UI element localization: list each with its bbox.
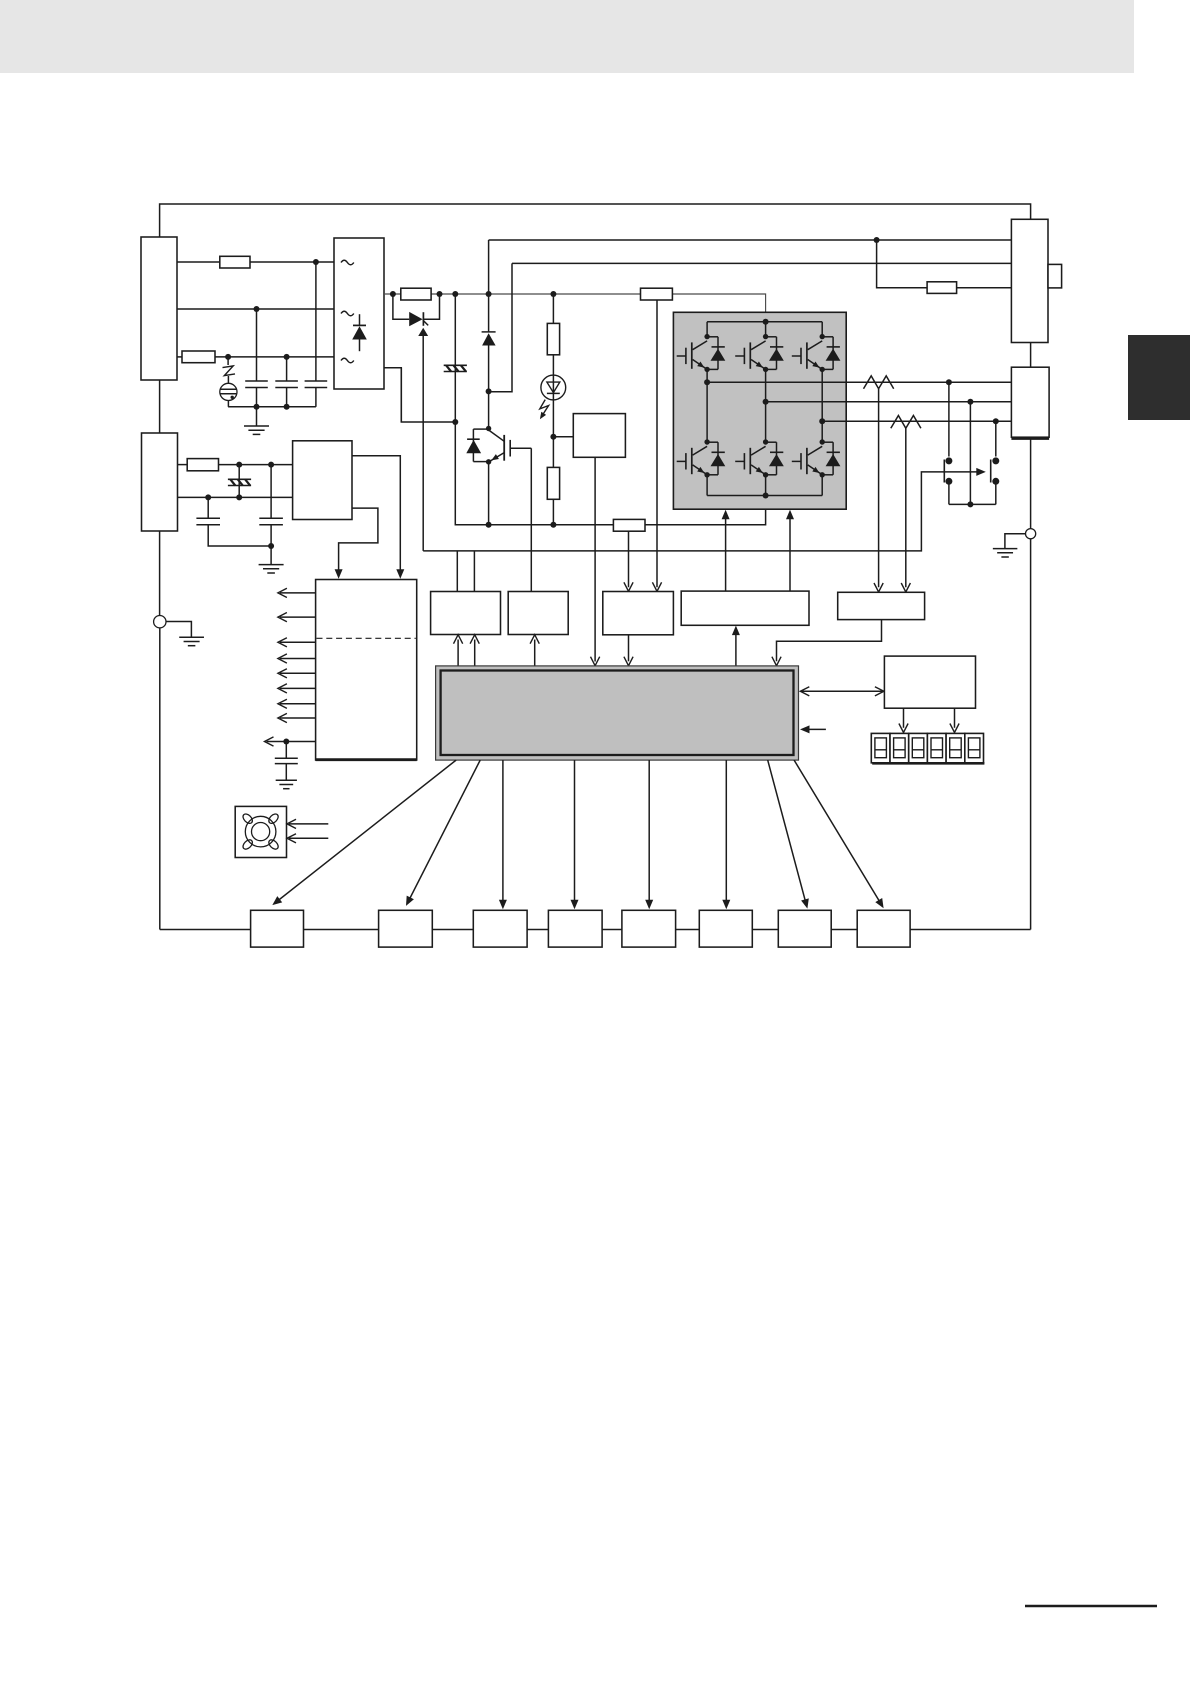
LED opto PC1 <box>552 355 554 468</box>
node U-K1 <box>946 379 952 385</box>
terminal block TB1 (R S T) <box>141 237 177 380</box>
ground G1 <box>256 407 258 426</box>
wire P1 top <box>489 239 1012 241</box>
fuse FU1 on DC link <box>454 294 456 422</box>
operator output arrow 3 <box>280 641 316 643</box>
PS1 tap wire <box>339 508 378 572</box>
7-segment display <box>871 733 984 763</box>
option box 8 <box>857 910 910 947</box>
module N rail <box>706 474 708 496</box>
contactor drive drop 1 <box>456 551 458 592</box>
cpu-to-box3 arrow <box>502 760 504 904</box>
current detect out wire <box>777 620 882 662</box>
cpu-to-box8 arrow <box>794 760 881 904</box>
detector output wire <box>594 457 596 661</box>
phase U riser <box>706 369 708 442</box>
wire P2 drop <box>489 263 512 391</box>
operator output arrow 2 <box>280 616 316 618</box>
IGBT Q8 lower W <box>792 439 841 477</box>
operator output arrow 5 <box>280 672 316 674</box>
node R <box>313 259 319 265</box>
wire ctrl B <box>178 496 293 498</box>
terminal tab B1/B2 <box>1048 264 1062 288</box>
resistor R5 <box>552 294 554 323</box>
contactor drive drop 2 <box>473 551 475 592</box>
TB1-TB4 link wire <box>159 380 161 433</box>
terminal block TB4 (control supply) <box>142 433 178 531</box>
ground G4 <box>166 622 191 637</box>
wire phase W <box>822 420 1011 422</box>
gate drive arrow W <box>789 515 791 592</box>
footer rule <box>1025 1605 1157 1608</box>
contactor drive in arrow 2 <box>474 640 476 666</box>
cpu-to-box6 arrow <box>725 760 727 904</box>
CT W sense wire <box>905 428 907 587</box>
wire P2 top <box>512 262 1011 264</box>
gate drive in arrow <box>735 631 737 666</box>
voltage detector block <box>573 414 625 458</box>
gate drive arrow U <box>725 515 727 592</box>
earth terminal circle <box>1026 529 1036 539</box>
node V-K1 <box>967 399 973 405</box>
braking resistor R4 <box>927 282 957 294</box>
right rail down <box>1030 539 1032 930</box>
bypass thyristor Q1 <box>393 294 409 319</box>
fan feed arrow 2 <box>289 837 328 839</box>
ground G3 <box>270 546 272 564</box>
brake drive block <box>508 592 568 635</box>
V/I detect block <box>603 592 674 635</box>
left rail to bottom <box>159 628 161 930</box>
surge arrester Z1 <box>227 357 229 365</box>
DC- rail drop <box>400 368 402 422</box>
option box 2 <box>379 910 433 947</box>
wire T phase <box>177 356 182 358</box>
IGBT Q4 upper V <box>735 334 784 372</box>
IGBT Q5 upper W <box>792 334 841 372</box>
terminal block TB2 <box>1011 219 1048 342</box>
left rail down <box>159 531 161 616</box>
phase V riser <box>765 369 767 442</box>
filter FL1 <box>238 465 240 498</box>
IGBT Q3 upper U <box>677 334 726 372</box>
brake transistor Q2 <box>486 426 491 431</box>
relay bottom bus <box>949 503 996 505</box>
V/I detect out arrow <box>628 635 630 662</box>
cpu-to-box4 arrow <box>574 760 576 904</box>
digital operator panel <box>316 580 417 761</box>
wire top loop <box>160 204 1031 237</box>
capacitor C1 <box>256 309 258 381</box>
cpu-to-box1 arrow <box>276 760 456 902</box>
resistor R6 <box>547 467 559 499</box>
IGBT Q6 lower U <box>677 439 726 477</box>
node T2 <box>284 354 290 360</box>
module P rail <box>707 321 822 323</box>
voltage detect wire <box>553 436 573 438</box>
option box 1 <box>251 910 304 947</box>
node T1 <box>225 354 231 360</box>
DC- bus <box>455 422 765 525</box>
option box 6 <box>699 910 752 947</box>
node S <box>254 306 260 312</box>
rectifier bridge D1 <box>334 238 384 389</box>
wire ctrl A <box>178 464 188 466</box>
operator output arrow 4 <box>280 658 316 660</box>
brake emitter wire <box>488 462 490 525</box>
fuse F2 <box>182 351 215 363</box>
CT U <box>864 376 894 389</box>
capacitor C4 <box>207 497 209 518</box>
contactor drive in arrow 1 <box>457 640 459 666</box>
node W-K1 <box>993 418 999 424</box>
operator output arrow 8 <box>280 717 316 719</box>
brake drive in arrow <box>534 640 536 666</box>
earth wire right <box>1030 437 1032 528</box>
DC+ bus <box>384 294 766 322</box>
capacitor C6 <box>285 742 287 759</box>
charging diode D2 <box>488 240 490 332</box>
cpu-to-box5 arrow <box>648 760 650 904</box>
capacitor ground bus <box>228 406 316 408</box>
display drive arrow 1 <box>903 708 905 728</box>
option box 7 <box>778 910 831 947</box>
capacitor C3 <box>315 262 317 381</box>
contactor drive block <box>431 592 501 635</box>
operator dashed split <box>317 637 416 639</box>
option box 3 <box>473 910 527 947</box>
ground G5 <box>276 780 297 788</box>
fuse F3 <box>187 459 218 471</box>
fan feed arrow 1 <box>289 823 328 825</box>
terminal block TB3 (U V W) <box>1011 367 1049 437</box>
IGBT Q7 lower V <box>735 439 784 477</box>
bus resistor R2 <box>641 288 673 300</box>
external input arrow <box>808 728 826 730</box>
phase W riser <box>821 369 823 442</box>
IGBT inverter module PM1 <box>673 312 846 509</box>
bus sense wire <box>656 300 658 587</box>
LED lower wire <box>550 434 556 440</box>
current detect block <box>838 592 925 619</box>
option box 5 <box>622 910 676 947</box>
DC- jog wire <box>384 368 455 422</box>
operator output arrow 1 <box>280 592 316 594</box>
TB2-TB3 link <box>1030 343 1032 368</box>
cpu-to-box7 arrow <box>768 760 806 904</box>
relay contact K1a <box>948 382 950 456</box>
brake diode D3 <box>472 429 474 462</box>
page header band <box>0 0 1134 73</box>
control CPU block <box>436 666 799 760</box>
shunt resistor R3 <box>613 519 645 531</box>
LED flash arrow <box>540 400 549 416</box>
wire phase V <box>766 401 1012 403</box>
cpu-to-box2 arrow <box>408 760 480 902</box>
interface link arrow <box>801 690 883 692</box>
CT W <box>891 416 921 429</box>
gate drive block <box>681 591 809 625</box>
cooling fan FAN1 <box>235 806 286 857</box>
earth terminal circle left <box>154 616 166 628</box>
relay contact K1b <box>995 421 997 456</box>
operator output arrow 9 <box>267 741 316 743</box>
option box 4 <box>548 910 602 947</box>
interface block <box>884 656 975 708</box>
CT U sense wire <box>878 389 880 588</box>
wire R phase <box>177 261 220 263</box>
operator output arrow 7 <box>280 703 316 705</box>
black side tab <box>1128 335 1190 420</box>
brake gate wire <box>530 448 532 591</box>
display drive arrow 2 <box>954 708 956 728</box>
relay mid wire <box>969 402 971 505</box>
fuse F1 <box>220 256 250 268</box>
ground G2 <box>1005 534 1026 549</box>
operator output arrow 6 <box>280 687 316 689</box>
bottom bus wire <box>160 929 1031 931</box>
arrester tube E1 <box>220 383 237 400</box>
PS1 output wire <box>352 456 400 573</box>
wire B1 branch <box>877 240 1012 288</box>
thyristor gate trigger wire <box>422 335 424 551</box>
capacitor C5 <box>270 465 272 519</box>
shunt sense wire <box>628 531 630 587</box>
wire phase U <box>707 381 1011 383</box>
wire S phase <box>177 308 334 310</box>
switching power supply PS1 <box>293 441 352 520</box>
capacitor C2 <box>286 357 288 381</box>
relay actuate arrow <box>423 472 977 551</box>
charging resistor R1 <box>401 288 431 300</box>
